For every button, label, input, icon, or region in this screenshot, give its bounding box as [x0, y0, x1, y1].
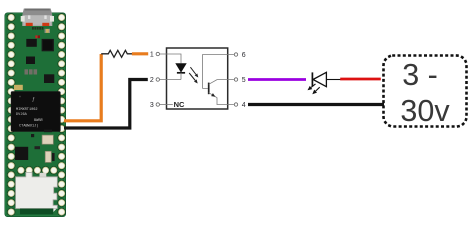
U1 emitter arrowhead — [211, 93, 215, 97]
capacitor row — [25, 69, 38, 74]
Teensy pad columns — [7, 13, 66, 216]
component C9 — [14, 85, 23, 90]
svg-text:30v: 30v — [400, 94, 450, 128]
svg-text:NC: NC — [174, 100, 185, 109]
Teensy 4.1 board U2 — [5, 13, 66, 217]
U1 internal LED cathode to pin 2 — [160, 73, 181, 80]
wire black U1 pin 4 to supply box — [248, 103, 384, 106]
svg-text:4: 4 — [242, 102, 246, 109]
wire black Teensy GND to U1 pin 2 — [64, 80, 148, 129]
svg-text:3 -: 3 - — [402, 58, 438, 92]
resistor R1 — [101, 50, 132, 57]
supply box 3-30v — [384, 56, 467, 127]
small ICs below MCU — [31, 130, 53, 150]
U1 phototransistor collector to pin 5 — [209, 80, 234, 85]
micro SD card slot — [16, 172, 58, 214]
svg-text:1: 1 — [150, 52, 154, 59]
middle pad row — [17, 166, 58, 174]
USB connector J1 — [21, 9, 54, 27]
U1 internal LED cathode bar — [177, 72, 185, 74]
svg-text:5: 5 — [242, 77, 246, 84]
USB pin row — [32, 27, 43, 30]
svg-text:BWBR: BWBR — [34, 119, 43, 123]
svg-text:MIMXRT1062: MIMXRT1062 — [16, 108, 38, 112]
U1 pin 3 lead NC — [160, 104, 173, 106]
D1 emission arrow 2 — [312, 87, 319, 94]
U1 pin 1 lead and internal LED anode — [160, 54, 181, 63]
wire orange Teensy pin to resistor R1 — [64, 54, 101, 121]
U1 phototransistor base bar — [208, 83, 210, 95]
LED D1 triangle — [313, 72, 326, 86]
U1 pin 3 terminal — [156, 103, 159, 106]
LED D1 anode lead — [326, 79, 341, 81]
U1 light coupling arrow 1 — [190, 67, 198, 77]
U1 pin 1 terminal — [156, 52, 159, 55]
svg-text:CTABWU1J): CTABWU1J) — [19, 124, 38, 129]
U1 pin 5 terminal — [234, 78, 237, 81]
U1 pin 6 terminal — [234, 53, 237, 56]
svg-text:3: 3 — [150, 102, 154, 109]
optocoupler U1 body — [167, 48, 228, 109]
U1 phototransistor emitter to pin 4 — [209, 93, 234, 105]
svg-text:DVJ6A: DVJ6A — [16, 113, 28, 117]
U1 pin 4 terminal — [234, 103, 237, 106]
svg-text:2: 2 — [150, 77, 154, 84]
svg-text:6: 6 — [242, 52, 246, 59]
wire orange R1 to U1 pin 1 — [132, 52, 148, 55]
IC U4 — [42, 39, 54, 51]
IC U6 — [44, 74, 54, 83]
U1 pin 2 terminal — [156, 78, 159, 81]
U1 pin 6 base line — [203, 55, 234, 89]
component Y1 — [45, 151, 54, 162]
wire red D1 to supply box — [340, 78, 381, 81]
D1 emission arrow 1 — [308, 84, 316, 90]
svg-text:ƒ: ƒ — [32, 97, 35, 103]
small components top area — [35, 29, 50, 38]
IC U3 — [26, 39, 37, 47]
main MCU chip MIMXRT1062 — [11, 91, 61, 132]
wire purple U1 pin 5 to LED D1 — [248, 78, 306, 81]
IC U7 — [15, 147, 28, 160]
IC U5 — [26, 57, 35, 65]
U1 light coupling arrow 2 — [189, 73, 198, 84]
LED D1 cathode bar — [311, 72, 313, 86]
U1 internal LED triangle — [175, 63, 186, 72]
